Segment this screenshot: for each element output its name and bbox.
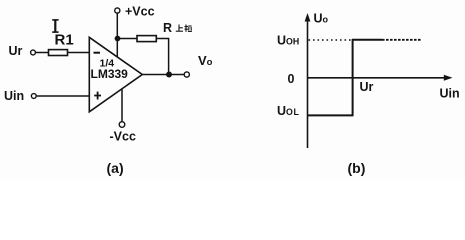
junction dot Vcc branch bbox=[115, 36, 121, 42]
svg-text:R1: R1 bbox=[55, 32, 74, 49]
current label I bbox=[52, 20, 58, 33]
svg-text:Vo: Vo bbox=[198, 53, 213, 68]
y-axis arrowhead bbox=[305, 13, 311, 22]
transfer curve high dashed extension bbox=[382, 39, 422, 41]
y-axis bbox=[307, 17, 309, 148]
svg-text:(b): (b) bbox=[348, 160, 366, 176]
resistor R pull-up bbox=[137, 36, 156, 42]
value label CJK pull-up (la) bbox=[185, 25, 192, 32]
dotted UOH level line bbox=[309, 39, 352, 41]
wire -Vcc vertical bbox=[121, 89, 123, 122]
terminal Uin input bbox=[31, 94, 36, 99]
transfer curve low segment UOL bbox=[308, 114, 354, 116]
x-axis bbox=[307, 77, 446, 79]
svg-text:(a): (a) bbox=[107, 160, 124, 176]
wire +Vcc vertical bbox=[116, 13, 118, 57]
op-amp U1 comparator triangle bbox=[89, 37, 142, 112]
wire Uin terminal to non-inverting input bbox=[36, 95, 89, 97]
svg-text:LM339: LM339 bbox=[91, 67, 129, 81]
svg-text:Uin: Uin bbox=[4, 89, 24, 103]
terminal Ur input bbox=[31, 50, 36, 55]
svg-text:Ur: Ur bbox=[360, 80, 374, 94]
transfer curve high segment UOH bbox=[352, 39, 382, 41]
svg-text:UOL: UOL bbox=[277, 104, 299, 118]
junction dot output node bbox=[166, 72, 172, 78]
svg-text:R: R bbox=[163, 21, 172, 35]
wire op-amp output bbox=[142, 74, 184, 76]
resistor R1 bbox=[49, 50, 68, 56]
svg-text:Uo: Uo bbox=[314, 12, 329, 26]
terminal +Vcc bbox=[115, 8, 120, 13]
svg-text:-Vcc: -Vcc bbox=[110, 130, 136, 144]
svg-text:Ur: Ur bbox=[9, 44, 23, 58]
transfer curve step at Ur bbox=[352, 39, 354, 115]
svg-text:0: 0 bbox=[288, 72, 295, 86]
wire pull-up resistor to output node bbox=[156, 39, 168, 75]
op-amp non-inverting input marker + bbox=[94, 92, 101, 100]
terminal Vo output bbox=[184, 72, 189, 77]
terminal -Vcc bbox=[119, 122, 125, 128]
x-axis arrowhead bbox=[444, 75, 453, 81]
wire R1 to inverting input bbox=[68, 52, 90, 54]
svg-text:+Vcc: +Vcc bbox=[125, 5, 155, 19]
wire Vcc node to pull-up resistor bbox=[118, 38, 138, 40]
svg-text:Uin: Uin bbox=[440, 87, 460, 101]
wire Ur terminal to R1 bbox=[36, 52, 49, 54]
op-amp inverting input marker - bbox=[94, 52, 101, 54]
svg-text:UOH: UOH bbox=[277, 34, 299, 48]
value label CJK pull-up (shang) bbox=[176, 25, 183, 32]
